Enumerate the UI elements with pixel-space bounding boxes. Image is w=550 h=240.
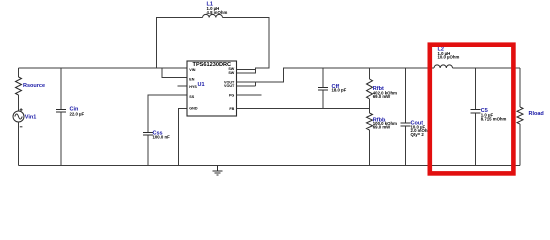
wire: C5 bottom (475, 113, 477, 166)
capacitor Cout (401, 123, 411, 126)
svg-text:TPS61230DRC: TPS61230DRC (193, 62, 232, 68)
svg-text:69.0 mW: 69.0 mW (373, 124, 391, 129)
op-amp U1 TPS61230DRC body (187, 61, 237, 116)
wire: FB node vertical (369, 99, 371, 113)
svg-text:100.0 nF: 100.0 nF (153, 134, 171, 139)
svg-text:8.715 mOhm: 8.715 mOhm (481, 116, 507, 121)
wire: VOUT link to output rail (256, 68, 435, 82)
svg-text:VOUT: VOUT (224, 84, 235, 88)
wire: Cin bottom (60, 112, 62, 166)
svg-text:U1: U1 (198, 82, 205, 88)
wire: C5 branch top (475, 68, 477, 110)
svg-text:18.0 pF: 18.0 pF (332, 88, 347, 93)
wire: Css bottom (147, 135, 149, 166)
svg-text:SS: SS (189, 95, 194, 99)
wire: ground rail (19, 165, 521, 167)
wire: left source branch top (18, 68, 20, 77)
wire: HYS stub (178, 85, 188, 87)
svg-text:HYS: HYS (189, 85, 197, 89)
svg-text:GND: GND (189, 107, 198, 111)
resistor Rsource (16, 77, 22, 95)
capacitor Cff (318, 87, 328, 90)
ground (212, 166, 222, 175)
inductor L1 (203, 14, 223, 17)
wire: SS pin to Css (148, 95, 187, 133)
wire: SW pin stubs (237, 70, 256, 74)
svg-text:VIN: VIN (189, 68, 195, 72)
capacitor Css (143, 133, 153, 136)
svg-text:4.8 mOhm: 4.8 mOhm (207, 10, 228, 15)
resistor Rfbb (367, 113, 373, 130)
wire: Cff branch top (322, 68, 324, 87)
source Vin1 (13, 111, 24, 122)
node: highlight box around L2 and C5 (430, 45, 514, 174)
wire: Cff bottom to FB (322, 90, 324, 109)
svg-text:EN: EN (189, 77, 194, 81)
wire: resistor to source (18, 95, 20, 111)
resistor Rfbt (367, 79, 373, 99)
svg-text:69.0 mW: 69.0 mW (373, 94, 391, 99)
wire: source to ground rail (18, 122, 20, 166)
svg-text:Rload: Rload (529, 111, 544, 117)
capacitor Cin (56, 109, 66, 112)
wire: PG stub (237, 94, 262, 96)
inductor L2 (434, 65, 453, 68)
svg-text:SW: SW (228, 71, 234, 75)
wire: Rfbb to ground rail (369, 130, 371, 166)
capacitor C5 (471, 110, 481, 113)
wire: EN branch from VIN rail (162, 68, 187, 78)
wire: Cout branch top (405, 68, 407, 123)
wire: VIN top rail (19, 67, 188, 69)
wire: Rload branch top (519, 68, 521, 107)
svg-text:PG: PG (229, 94, 234, 98)
wire: L1 loop left side (157, 18, 203, 69)
resistor Rload (517, 107, 523, 124)
svg-text:22.0 µF: 22.0 µF (70, 112, 85, 117)
wire: Cin branch top (60, 68, 62, 109)
svg-text:Qty= 2: Qty= 2 (411, 132, 425, 137)
svg-text:10.0 µOhm: 10.0 µOhm (438, 55, 460, 60)
wire: Rload to ground rail (519, 124, 521, 166)
svg-text:Vin1: Vin1 (25, 115, 37, 121)
svg-text:FB: FB (229, 107, 234, 111)
svg-text:Rsource: Rsource (23, 83, 45, 89)
wire: VOUT pin stubs (237, 82, 256, 86)
wire: output rail after L2 (453, 67, 521, 69)
wire: Cout bottom (405, 126, 407, 166)
wire: GND pin to ground rail (179, 109, 188, 166)
wire: Rfbt branch top (369, 68, 371, 79)
wire: FB net (237, 108, 370, 110)
wire: L1 loop right side down to SW (223, 18, 270, 74)
